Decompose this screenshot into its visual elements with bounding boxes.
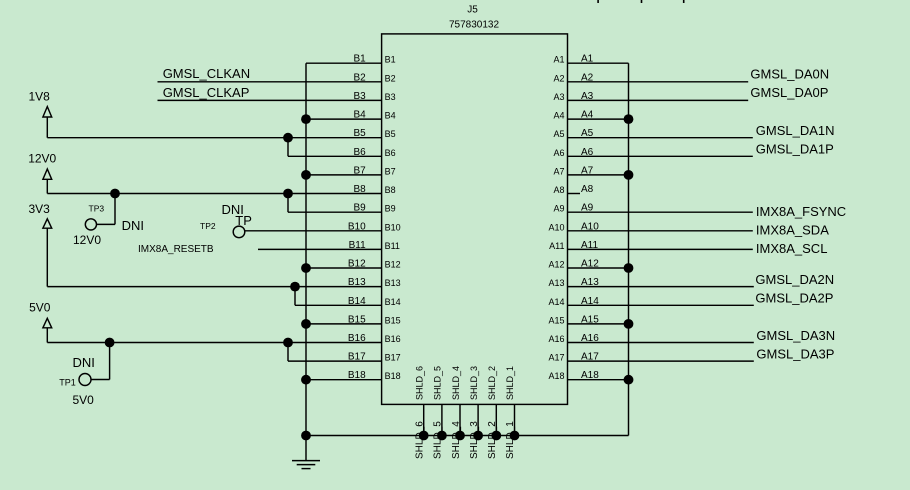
svg-text:B2: B2 [385, 73, 396, 83]
net label B16 [348, 333, 366, 344]
svg-text:A4: A4 [553, 111, 564, 121]
wire pin A5 [568, 137, 753, 139]
svg-text:A2: A2 [581, 72, 594, 83]
pin name A18 inside connector [548, 371, 564, 381]
svg-text:B16: B16 [385, 334, 401, 344]
net label B13 [348, 277, 366, 288]
junction dot B12 to ground bus [301, 263, 311, 273]
svg-text:A2: A2 [553, 73, 564, 83]
reference designator J5 [467, 5, 478, 16]
net label GMSL_CLKAP [163, 85, 250, 100]
wire pin A9 [568, 211, 753, 213]
wire TP1 to 5V0 rail [91, 343, 110, 380]
net label A9 [581, 203, 594, 214]
svg-text:A3: A3 [553, 92, 564, 102]
svg-text:A1: A1 [581, 54, 594, 65]
svg-text:A11: A11 [581, 240, 598, 251]
net label B8 [353, 184, 366, 195]
junction dot SHLD_2 on ground bus [491, 431, 501, 441]
svg-text:IMX8A_SDA: IMX8A_SDA [756, 222, 829, 237]
svg-text:GMSL_DA1N: GMSL_DA1N [756, 123, 835, 138]
junction dot TP1 tap on 5V0 rail [105, 338, 115, 348]
svg-text:B12: B12 [385, 260, 401, 270]
pin name A2 inside connector [553, 73, 564, 83]
net label B1 [353, 54, 366, 65]
net label A1 [581, 54, 594, 65]
svg-text:A17: A17 [548, 353, 564, 363]
svg-text:12V0: 12V0 [28, 152, 56, 166]
svg-text:A16: A16 [581, 333, 599, 344]
net label B10 [348, 221, 366, 232]
svg-text:A18: A18 [548, 371, 564, 381]
pin name A6 inside connector [553, 148, 564, 158]
wire pin B17 [288, 360, 382, 362]
junction dot A18 to ground bus [624, 375, 634, 385]
pin name A11 inside connector [549, 241, 564, 251]
connector J5 body [382, 34, 568, 405]
svg-text:B2: B2 [353, 72, 366, 83]
net label A2 [581, 72, 594, 83]
wire pin B11 [258, 248, 382, 250]
net label GMSL_DA1N [756, 123, 835, 138]
net label SHLD_1 (rotated) [505, 421, 516, 459]
net label B17 [348, 352, 366, 363]
pin name B8 inside connector [385, 185, 396, 195]
net label B7 [353, 165, 366, 176]
label 12V0 (TP3) [73, 233, 101, 247]
test point TP3 [85, 219, 96, 230]
pin name B9 inside connector [385, 204, 396, 214]
power symbol 12V0 [43, 169, 52, 194]
wire pin SHLD_4 [459, 404, 461, 435]
svg-text:B11: B11 [385, 241, 400, 251]
wire pin A17 [568, 360, 754, 362]
svg-text:A17: A17 [581, 352, 599, 363]
wire pin A13 [568, 286, 754, 288]
svg-text:SHLD_2: SHLD_2 [487, 366, 497, 400]
svg-text:SHLD_3: SHLD_3 [469, 366, 479, 400]
wire pin A15 [568, 323, 629, 325]
pin name B13 inside connector [385, 278, 401, 288]
wire pin SHLD_6 [423, 404, 425, 435]
net label B2 [353, 72, 366, 83]
junction dot ground bus corner [301, 431, 311, 441]
svg-text:12V0: 12V0 [73, 233, 101, 247]
net label B9 [353, 203, 366, 214]
junction dot 1V8 rail to B5 [283, 133, 293, 143]
svg-text:B3: B3 [353, 91, 366, 102]
junction dot SHLD_1 on ground bus [510, 431, 520, 441]
junction dot B18 to ground bus [301, 375, 311, 385]
pin name B12 inside connector [385, 260, 401, 270]
wire pin B14 [295, 304, 382, 306]
net label B3 [353, 91, 366, 102]
svg-text:B8: B8 [353, 184, 366, 195]
pin name A10 inside connector [548, 222, 564, 232]
pin name A14 inside connector [548, 297, 564, 307]
svg-text:A10: A10 [581, 221, 599, 232]
net label SHLD_2 (rotated) [487, 421, 498, 459]
pin name B11 inside connector [385, 241, 400, 251]
test point TP1 [79, 374, 91, 386]
pin name B5 inside connector [385, 129, 396, 139]
ground bus wire (B side vertical) [305, 63, 307, 460]
power net label 5V0 [29, 300, 51, 314]
net label GMSL_DA0P [750, 85, 828, 100]
wire pin B5 [47, 137, 381, 139]
svg-text:B5: B5 [353, 128, 366, 139]
svg-text:A15: A15 [581, 314, 599, 325]
svg-text:SHLD_5: SHLD_5 [433, 366, 443, 400]
wire pin B16 [47, 342, 381, 344]
svg-text:B8: B8 [385, 185, 396, 195]
wire pin A6 [568, 155, 753, 157]
svg-text:B15: B15 [348, 314, 366, 325]
pin name SHLD_2 inside connector (rotated) [487, 366, 497, 400]
svg-text:A8: A8 [581, 184, 594, 195]
svg-text:5V0: 5V0 [73, 393, 95, 407]
svg-text:GMSL_DA2P: GMSL_DA2P [755, 291, 833, 306]
wire pin SHLD_2 [495, 404, 497, 435]
net label A15 [581, 314, 599, 325]
svg-text:A11: A11 [549, 241, 564, 251]
wire pin A2 [568, 81, 749, 83]
pin name B16 inside connector [385, 334, 401, 344]
svg-text:TP1: TP1 [59, 378, 76, 388]
svg-text:B13: B13 [348, 277, 366, 288]
svg-text:B18: B18 [348, 370, 366, 381]
svg-text:B11: B11 [349, 240, 366, 251]
svg-text:757830132: 757830132 [449, 19, 499, 30]
svg-text:A9: A9 [581, 203, 594, 214]
wire pin A18 [568, 379, 629, 381]
pin name A8 inside connector [553, 185, 564, 195]
svg-text:3V3: 3V3 [29, 202, 51, 216]
net label B18 [348, 370, 366, 381]
pin name A12 inside connector [548, 260, 564, 270]
junction dot 5V0 rail to B16 [283, 338, 293, 348]
wire pin A14 [568, 304, 754, 306]
net label A4 [581, 110, 594, 121]
net label IMX8A_SCL [756, 241, 828, 256]
svg-text:A3: A3 [581, 91, 594, 102]
svg-text:B10: B10 [385, 222, 401, 232]
junction dot 3V3 rail to B13 [290, 282, 300, 292]
svg-text:A16: A16 [548, 334, 564, 344]
label TP2 [200, 221, 216, 231]
net label GMSL_DA3P [756, 347, 834, 362]
wire pin A3 [568, 99, 749, 101]
net label GMSL_CLKAN [163, 66, 250, 81]
svg-text:B14: B14 [385, 297, 401, 307]
svg-text:A12: A12 [581, 259, 599, 270]
junction dot 12V0 rail to B8 [283, 189, 293, 199]
net label A18 [581, 370, 599, 381]
junction dot A15 to ground bus [624, 319, 634, 329]
ground symbol [292, 461, 320, 469]
svg-text:1V8: 1V8 [29, 89, 51, 103]
wire pin B3 [158, 99, 382, 101]
pin name A15 inside connector [548, 315, 564, 325]
pin name A3 inside connector [553, 92, 564, 102]
svg-text:B1: B1 [353, 54, 366, 65]
pin name SHLD_6 inside connector (rotated) [415, 366, 425, 400]
wire pin B8 [47, 193, 381, 195]
net label B15 [348, 314, 366, 325]
net label IMX8A_SDA [756, 222, 829, 237]
svg-text:B6: B6 [353, 147, 366, 158]
svg-text:GMSL_CLKAP: GMSL_CLKAP [163, 85, 250, 100]
svg-text:A9: A9 [553, 204, 564, 214]
svg-text:A13: A13 [548, 278, 564, 288]
label 5V0 (TP1) [73, 393, 95, 407]
net label GMSL_DA0N [750, 67, 829, 82]
wire B8 to B9 [287, 194, 289, 213]
wire pin A7 [568, 174, 629, 176]
pin name B3 inside connector [385, 92, 396, 102]
svg-text:B17: B17 [385, 353, 401, 363]
wire pin B15 [306, 323, 382, 325]
wire pin B1 [306, 62, 382, 64]
net label A14 [581, 296, 599, 307]
svg-text:GMSL_DA0N: GMSL_DA0N [750, 67, 829, 82]
wire pin A1 [568, 62, 629, 64]
wire pin A10 [568, 230, 753, 232]
svg-text:B13: B13 [385, 278, 401, 288]
net label A13 [581, 277, 599, 288]
wire B5 to B6 [287, 138, 289, 157]
junction dot TP3 tap on 12V0 rail [110, 189, 120, 199]
svg-text:B1: B1 [385, 55, 396, 65]
svg-text:A18: A18 [581, 370, 599, 381]
svg-text:B12: B12 [348, 259, 366, 270]
power symbol 5V0 [43, 318, 52, 342]
svg-text:A7: A7 [553, 166, 564, 176]
svg-text:DNI: DNI [73, 355, 95, 370]
net label A10 [581, 221, 599, 232]
svg-text:IMX8A_RESETB: IMX8A_RESETB [138, 244, 214, 255]
label DNI (TP1) [73, 355, 95, 370]
svg-text:5V0: 5V0 [29, 300, 51, 314]
svg-text:B17: B17 [348, 352, 366, 363]
svg-text:A1: A1 [553, 55, 564, 65]
svg-text:TP3: TP3 [89, 204, 105, 214]
svg-text:A13: A13 [581, 277, 599, 288]
pin name B1 inside connector [385, 55, 396, 65]
wire B16 to B17 [287, 343, 289, 362]
pin name SHLD_4 inside connector (rotated) [451, 366, 461, 400]
svg-text:A14: A14 [581, 296, 599, 307]
junction dot SHLD_6 on ground bus [419, 431, 429, 441]
wire pin B7 [306, 174, 382, 176]
svg-text:A7: A7 [581, 165, 594, 176]
label TP1 [59, 378, 76, 388]
wire pin B10 [245, 230, 382, 232]
pin name SHLD_1 inside connector (rotated) [505, 366, 515, 400]
pin name A16 inside connector [548, 334, 564, 344]
wire pin B4 [306, 118, 382, 120]
net label A6 [581, 147, 594, 158]
svg-text:A12: A12 [548, 260, 564, 270]
wire pin A4 [568, 118, 629, 120]
svg-text:TP2: TP2 [200, 221, 216, 231]
svg-text:B5: B5 [385, 129, 396, 139]
ground bus wire (bottom horizontal) [306, 435, 629, 437]
ground bus wire (A side vertical) [628, 63, 630, 435]
wire pin A16 [568, 342, 754, 344]
svg-text:GMSL_CLKAN: GMSL_CLKAN [163, 66, 250, 81]
pin name B4 inside connector [385, 111, 396, 121]
svg-text:GMSL_DA2N: GMSL_DA2N [755, 272, 834, 287]
net label GMSL_DA3N [756, 328, 835, 343]
junction dot A4 to ground bus [624, 114, 634, 124]
svg-text:A5: A5 [581, 128, 594, 139]
pin name B7 inside connector [385, 166, 396, 176]
net label SHLD_5 (rotated) [433, 421, 444, 459]
pin name B18 inside connector [385, 371, 401, 381]
pin name SHLD_5 inside connector (rotated) [433, 366, 443, 400]
svg-text:A10: A10 [548, 222, 564, 232]
power net label 3V3 [29, 202, 51, 216]
net label B11 [349, 240, 366, 251]
net label SHLD_4 (rotated) [451, 421, 462, 459]
junction dot B4 to ground bus [301, 114, 311, 124]
pin name A5 inside connector [553, 129, 564, 139]
pin name A1 inside connector [553, 55, 564, 65]
svg-text:GMSL_DA3N: GMSL_DA3N [756, 328, 835, 343]
wire pin B18 [306, 379, 382, 381]
svg-text:J5: J5 [467, 5, 478, 16]
svg-text:B7: B7 [353, 165, 366, 176]
svg-text:A15: A15 [548, 315, 564, 325]
net label B4 [353, 110, 366, 121]
wire pin SHLD_3 [477, 404, 479, 435]
pin name A4 inside connector [553, 111, 564, 121]
junction dot B15 to ground bus [301, 319, 311, 329]
svg-text:IMX8A_SCL: IMX8A_SCL [756, 241, 828, 256]
svg-text:GMSL_DA1P: GMSL_DA1P [756, 142, 834, 157]
net label B5 [353, 128, 366, 139]
net label GMSL_DA2N [755, 272, 834, 287]
junction dot SHLD_4 on ground bus [455, 431, 465, 441]
svg-text:A5: A5 [553, 129, 564, 139]
junction dot B7 to ground bus [301, 170, 311, 180]
wire pin SHLD_5 [441, 404, 443, 435]
label TP net name [235, 213, 252, 228]
wire pin B2 [158, 81, 382, 83]
power symbol 1V8 [43, 107, 52, 138]
junction dot A12 to ground bus [624, 263, 634, 273]
label DNI (TP2) [222, 202, 244, 217]
net label A8 [581, 184, 594, 195]
pin name A17 inside connector [548, 353, 564, 363]
net label A3 [581, 91, 594, 102]
svg-text:B4: B4 [385, 111, 396, 121]
junction dot A7 to ground bus [624, 170, 634, 180]
wire pin B9 [288, 211, 382, 213]
label TP3 [89, 204, 105, 214]
svg-text:A6: A6 [553, 148, 564, 158]
net label A5 [581, 128, 594, 139]
label DNI (TP3) [122, 218, 144, 233]
svg-text:SHLD_4: SHLD_4 [451, 366, 461, 400]
svg-text:B16: B16 [348, 333, 366, 344]
wire pin A12 [568, 267, 629, 269]
svg-text:B18: B18 [385, 371, 401, 381]
junction dot SHLD_5 on ground bus [437, 431, 447, 441]
net label A16 [581, 333, 599, 344]
power net label 12V0 [28, 152, 56, 166]
wire pin A8 [568, 193, 581, 195]
net label A12 [581, 259, 599, 270]
net label B6 [353, 147, 366, 158]
power symbol 3V3 [43, 219, 52, 287]
pin name A13 inside connector [548, 278, 564, 288]
net label B12 [348, 259, 366, 270]
svg-text:DNI: DNI [122, 218, 144, 233]
wire pin B13 [47, 286, 381, 288]
net label GMSL_DA1P [756, 142, 834, 157]
svg-text:TP: TP [235, 213, 252, 228]
svg-text:A4: A4 [581, 110, 594, 121]
net label IMX8A_RESETB [138, 244, 214, 255]
svg-text:B9: B9 [353, 203, 366, 214]
svg-text:B15: B15 [385, 315, 401, 325]
test point TP2 [233, 226, 245, 238]
net label SHLD_6 (rotated) [415, 421, 426, 459]
clipped text remnant marks at top edge [597, 0, 684, 3]
net label A7 [581, 165, 594, 176]
net label GMSL_DA2P [755, 291, 833, 306]
svg-text:SHLD_6: SHLD_6 [415, 366, 425, 400]
pin name B6 inside connector [385, 148, 396, 158]
svg-text:A14: A14 [548, 297, 564, 307]
svg-text:B14: B14 [348, 296, 366, 307]
wire B13 to B14 [294, 287, 296, 306]
junction dot SHLD_3 on ground bus [473, 431, 483, 441]
net label B14 [348, 296, 366, 307]
svg-text:B6: B6 [385, 148, 396, 158]
svg-text:GMSL_DA0P: GMSL_DA0P [750, 85, 828, 100]
pin name A7 inside connector [553, 166, 564, 176]
net label SHLD_3 (rotated) [469, 421, 480, 459]
wire pin A11 [568, 248, 753, 250]
pin name B10 inside connector [385, 222, 401, 232]
svg-text:B10: B10 [348, 221, 366, 232]
pin name B15 inside connector [385, 315, 401, 325]
pin name SHLD_3 inside connector (rotated) [469, 366, 479, 400]
svg-text:B4: B4 [353, 110, 366, 121]
wire pin SHLD_1 [514, 404, 516, 435]
net label A11 [581, 240, 598, 251]
pin name B2 inside connector [385, 73, 396, 83]
svg-text:GMSL_DA3P: GMSL_DA3P [756, 347, 834, 362]
svg-text:B3: B3 [385, 92, 396, 102]
net label IMX8A_FSYNC [756, 204, 846, 219]
wire TP3 to 12V0 rail [96, 194, 115, 225]
pin name B17 inside connector [385, 353, 401, 363]
svg-text:A8: A8 [553, 185, 564, 195]
wire pin B6 [288, 155, 382, 157]
pin name B14 inside connector [385, 297, 401, 307]
power net label 1V8 [29, 89, 51, 103]
svg-text:SHLD_1: SHLD_1 [505, 366, 515, 400]
part value 757830132 [449, 19, 499, 30]
svg-text:IMX8A_FSYNC: IMX8A_FSYNC [756, 204, 846, 219]
svg-text:B9: B9 [385, 204, 396, 214]
wire pin B12 [306, 267, 382, 269]
net label A17 [581, 352, 599, 363]
